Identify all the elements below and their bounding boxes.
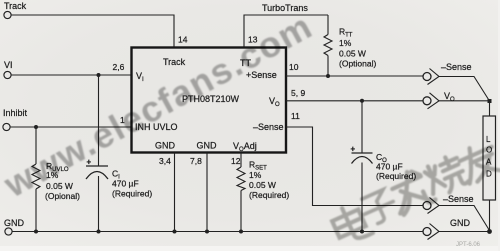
wire VO to load bbox=[439, 100, 490, 102]
svg-text:(Required): (Required) bbox=[249, 190, 289, 200]
wire pin3,4 GND bbox=[174, 153, 176, 232]
svg-text:(Opional): (Opional) bbox=[45, 191, 80, 201]
svg-text:14: 14 bbox=[178, 35, 188, 45]
wire CO branch lower bbox=[361, 163, 363, 232]
terminal Track bbox=[4, 11, 11, 18]
capacitor CI bbox=[86, 166, 108, 179]
svg-text:(Optional): (Optional) bbox=[339, 59, 376, 69]
svg-text:1%: 1% bbox=[339, 38, 352, 48]
load lead top bbox=[489, 101, 491, 116]
terminal Inhibit bbox=[3, 123, 10, 130]
wire RUVLO lower lead bbox=[35, 189, 37, 232]
node GND/CO bbox=[360, 230, 364, 234]
svg-text:JPT-6.06: JPT-6.06 bbox=[456, 242, 481, 248]
wire pin5,9 VO bbox=[286, 100, 423, 102]
node load top junction bbox=[488, 99, 492, 103]
svg-text:GND: GND bbox=[197, 141, 218, 151]
terminal -Sense bottom bbox=[423, 202, 431, 210]
load box bbox=[483, 116, 496, 200]
svg-text:10: 10 bbox=[289, 62, 299, 72]
svg-text:GND: GND bbox=[4, 218, 25, 228]
wire RTT bottom lead bbox=[327, 56, 329, 77]
svg-text:L: L bbox=[486, 135, 491, 144]
svg-text:7,8: 7,8 bbox=[190, 156, 202, 166]
svg-text:GND: GND bbox=[450, 218, 471, 228]
arrow GND right bbox=[428, 224, 440, 240]
arrow VO bbox=[428, 93, 440, 109]
node GND/RUVLO bbox=[34, 230, 38, 234]
svg-text:12: 12 bbox=[231, 156, 241, 166]
terminal VI bbox=[4, 71, 11, 78]
wire CI branch lower bbox=[98, 176, 100, 232]
wire CI branch upper bbox=[98, 75, 100, 166]
wire CO branch upper bbox=[361, 101, 363, 153]
svg-text:–Sense: –Sense bbox=[253, 122, 284, 132]
resistor RUVLO bbox=[32, 164, 40, 189]
wire RSET lower lead bbox=[240, 191, 242, 232]
node Inhibit/RUVLO junction bbox=[34, 125, 38, 129]
svg-text:470 µF: 470 µF bbox=[112, 179, 139, 189]
node GND/RSET bbox=[239, 230, 243, 234]
wire pin7,8 GND bbox=[206, 153, 208, 232]
svg-text:11: 11 bbox=[291, 111, 300, 121]
load lead bottom bbox=[489, 200, 491, 232]
svg-text:2,6: 2,6 bbox=[113, 62, 125, 72]
wire GND right to load bbox=[439, 231, 490, 233]
wire -Sense bottom diagonal bbox=[439, 206, 490, 231]
wire RUVLO upper lead bbox=[35, 127, 37, 164]
svg-text:Track: Track bbox=[4, 1, 27, 11]
svg-text:5, 9: 5, 9 bbox=[291, 88, 305, 98]
svg-text:–Sense: –Sense bbox=[443, 194, 474, 204]
watermark 电子发烧友 (hand drawn strokes) bbox=[329, 140, 500, 247]
svg-text:(Required): (Required) bbox=[112, 189, 152, 199]
wire pin11 -Sense route bbox=[286, 127, 423, 206]
op module U1 PTH08T210W box bbox=[132, 48, 287, 153]
svg-text:0.05 W: 0.05 W bbox=[249, 180, 276, 190]
wire pin12 upper lead bbox=[240, 153, 242, 168]
capacitor CO bbox=[352, 153, 373, 164]
wire VI bbox=[12, 74, 132, 76]
terminal VO bbox=[423, 97, 431, 105]
wire TurboTrans pin13 bbox=[244, 15, 328, 48]
wire Track to pin14 bbox=[12, 15, 175, 48]
terminal GND left bbox=[5, 228, 12, 235]
terminal -Sense top bbox=[423, 73, 431, 81]
node GND/pin34 bbox=[173, 230, 177, 234]
resistor RTT bbox=[324, 35, 332, 56]
svg-text:–Sense: –Sense bbox=[441, 62, 472, 72]
wire pin10 +Sense bbox=[286, 75, 423, 77]
node CO/VO junction bbox=[360, 99, 364, 103]
wire GND bus bbox=[13, 231, 424, 233]
svg-text:1%: 1% bbox=[249, 170, 262, 180]
svg-text:Track: Track bbox=[163, 57, 186, 67]
wire -Sense top to load bbox=[439, 77, 490, 102]
wire Inhibit bbox=[11, 126, 132, 128]
arrow -Sense bottom bbox=[428, 198, 440, 214]
wire RTT top lead bbox=[327, 15, 329, 35]
node VI/CI junction bbox=[97, 73, 101, 77]
svg-text:470 µF: 470 µF bbox=[376, 162, 403, 172]
svg-text:GND: GND bbox=[155, 141, 176, 151]
node GND/CI bbox=[97, 230, 101, 234]
node RTT/+Sense junction bbox=[326, 74, 330, 78]
resistor RSET bbox=[237, 167, 245, 191]
terminal GND right bbox=[423, 228, 431, 236]
arrow -Sense top bbox=[428, 69, 440, 85]
svg-text:3,4: 3,4 bbox=[159, 156, 171, 166]
svg-text:+: + bbox=[351, 145, 356, 154]
node load bottom junction bbox=[487, 229, 492, 234]
svg-text:VI: VI bbox=[4, 60, 13, 70]
watermark www.elecfans.com bbox=[0, 5, 319, 206]
svg-text:0.05 W: 0.05 W bbox=[339, 49, 366, 59]
svg-text:Inhibit: Inhibit bbox=[3, 108, 28, 118]
node GND/pin78 bbox=[205, 230, 209, 234]
